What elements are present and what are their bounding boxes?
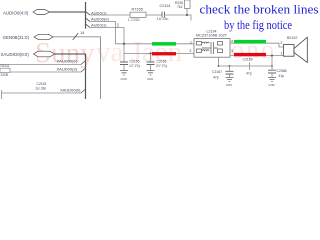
svg-text:XAUDIO0(9:0): XAUDIO0(9:0) bbox=[1, 52, 30, 57]
svg-text:C2167: C2167 bbox=[212, 70, 222, 74]
bus width slash 14 bbox=[73, 33, 79, 40]
ground rail wire bbox=[219, 65, 273, 67]
svg-text:47p: 47p bbox=[246, 71, 252, 75]
svg-text:AUD0(1): AUD0(1) bbox=[91, 23, 107, 28]
svg-text:AUDIO0(4:0): AUDIO0(4:0) bbox=[3, 10, 29, 15]
junction dot speaker lower bbox=[271, 55, 273, 57]
svg-text:GND: GND bbox=[121, 77, 127, 81]
capacitor C2368 bbox=[268, 56, 287, 78]
wire net1 top bbox=[90, 14, 130, 16]
wire net2 to chip upper bbox=[90, 22, 194, 44]
svg-text:AUD0(1): AUD0(1) bbox=[91, 10, 107, 15]
svg-text:220B: 220B bbox=[1, 73, 8, 77]
svg-text:C2151: C2151 bbox=[160, 4, 171, 8]
svg-text:by the fig notice: by the fig notice bbox=[224, 17, 292, 32]
wire chip out lower bbox=[230, 55, 284, 57]
svg-text:7k2: 7k2 bbox=[177, 5, 183, 9]
wire port3 to lower bus bbox=[55, 53, 86, 55]
svg-text:1/7 27y: 1/7 27y bbox=[129, 64, 140, 68]
capacitor C2115 label bbox=[35, 82, 46, 90]
svg-text:GND: GND bbox=[147, 77, 153, 81]
svg-text:3: 3 bbox=[231, 49, 233, 53]
watermark bbox=[35, 35, 276, 69]
red highlight bar left bbox=[152, 52, 176, 55]
svg-text:2: 2 bbox=[281, 41, 283, 45]
resistor R226 bbox=[175, 0, 190, 15]
lower bus vertical bbox=[85, 54, 87, 99]
green highlight bar left bbox=[152, 42, 176, 46]
svg-text:1,7/252: 1,7/252 bbox=[128, 18, 140, 22]
tick on net3 wire bbox=[117, 23, 119, 27]
svg-text:GND: GND bbox=[226, 83, 232, 87]
green highlight bar right bbox=[234, 40, 266, 44]
stub wire mid rail bbox=[249, 62, 251, 70]
speaker B2102 bbox=[281, 36, 308, 63]
svg-text:1U 33n: 1U 33n bbox=[35, 86, 46, 90]
svg-text:41p: 41p bbox=[279, 74, 285, 78]
internals bbox=[197, 42, 223, 55]
ground below C2167 cap bbox=[226, 78, 234, 88]
junction dot C2166 bbox=[150, 52, 152, 54]
junction dot rail left bbox=[218, 65, 220, 67]
svg-text:R2111: R2111 bbox=[1, 64, 10, 68]
svg-text:XAUD00(6): XAUD00(6) bbox=[57, 58, 78, 63]
svg-text:GEN0B(31:0): GEN0B(31:0) bbox=[3, 35, 30, 40]
svg-text:C2166: C2166 bbox=[157, 60, 167, 64]
wire net3 vertical to lower bbox=[90, 28, 124, 63]
capacitor C2167 body bbox=[226, 66, 234, 78]
wire port1 to bus bbox=[50, 11, 86, 13]
bus tap diagonal 3 bbox=[86, 24, 91, 28]
ground below C2156 bbox=[120, 71, 128, 81]
resistor R2111 bbox=[0, 64, 10, 77]
svg-text:ono: ono bbox=[231, 35, 276, 64]
svg-text:47p: 47p bbox=[213, 75, 219, 79]
filter L2194 bbox=[190, 29, 234, 57]
junction dot C2167 cap bbox=[229, 65, 231, 67]
svg-text:1U 33n: 1U 33n bbox=[157, 17, 169, 21]
red highlight bar right bbox=[234, 53, 266, 56]
svg-text:1: 1 bbox=[190, 41, 192, 45]
lower bus tap 2 bbox=[81, 68, 86, 72]
bus tap diagonal 1 bbox=[86, 12, 91, 16]
svg-text:GND: GND bbox=[268, 83, 274, 87]
svg-text:B2102: B2102 bbox=[287, 36, 297, 40]
port AUDIO0(4:0) bbox=[3, 10, 50, 16]
resistor R7155 bbox=[128, 8, 146, 23]
wire XAUD00(9) bbox=[2, 90, 82, 99]
svg-text:AUD00(0): AUD00(0) bbox=[91, 17, 109, 22]
bus tap diagonal 2 bbox=[86, 18, 91, 22]
bus top vertical bbox=[85, 2, 87, 29]
wire chip out upper bbox=[230, 43, 284, 47]
svg-text:2: 2 bbox=[190, 49, 192, 53]
svg-text:R7155: R7155 bbox=[132, 8, 143, 12]
lower bus tap 3 bbox=[81, 89, 86, 93]
junction dot R226/net1 bbox=[186, 14, 188, 16]
wire C2151 to corner bbox=[165, 15, 192, 21]
svg-text:C2169: C2169 bbox=[243, 58, 253, 62]
capacitor C2156 bbox=[120, 60, 140, 71]
wire chip pin to rail bbox=[218, 57, 220, 66]
svg-text:XAUD00(3): XAUD00(3) bbox=[57, 67, 78, 72]
svg-text:14: 14 bbox=[80, 30, 85, 35]
ground below C2368 bbox=[268, 78, 276, 88]
svg-text:C2368: C2368 bbox=[277, 69, 287, 73]
junction dot C2156 bbox=[123, 43, 125, 45]
capacitor C2151 bbox=[157, 4, 171, 21]
wire XAUD00(3) bbox=[0, 71, 81, 73]
svg-text:XAUD00(9): XAUD00(9) bbox=[60, 88, 81, 93]
wire R7155 to C2151 bbox=[146, 14, 162, 16]
wire port2 down middle bbox=[53, 37, 101, 99]
svg-text:check the broken lines: check the broken lines bbox=[200, 1, 319, 16]
svg-text:1: 1 bbox=[281, 52, 283, 56]
capacitor C2166 bbox=[147, 53, 168, 70]
svg-text:MCZ3710AB 102T: MCZ3710AB 102T bbox=[196, 34, 227, 38]
port XAUDIO0(9:0) bbox=[1, 51, 55, 57]
junction dot C2368 rail bbox=[271, 65, 273, 67]
port GEN0B(31:0) bbox=[3, 34, 53, 40]
svg-text:C2156: C2156 bbox=[130, 60, 140, 64]
wire XAUD00(6) bbox=[0, 64, 81, 66]
ground below C2166 bbox=[147, 71, 155, 81]
wire lower to chip bbox=[124, 52, 194, 54]
svg-text:2/7 27y: 2/7 27y bbox=[156, 64, 167, 68]
lower bus tap 1 bbox=[81, 61, 86, 65]
